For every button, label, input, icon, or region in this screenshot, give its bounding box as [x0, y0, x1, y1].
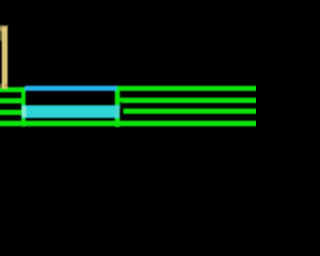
wire green line2 left segment	[0, 98, 26, 103]
wire green line1 right segment	[115, 86, 259, 91]
wire green line2 right segment	[119, 98, 259, 103]
wire green left vertical bar	[21, 87, 25, 126]
wire blue metal line1 middle segment	[25, 86, 117, 91]
poly gate P1 vertical bar	[2, 27, 8, 89]
poly gate P1 dim stub	[0, 27, 2, 32]
wire green line3 right segment	[123, 109, 259, 114]
contact overlap left (cyan over green bar)	[22, 106, 26, 117]
poly gate P1 dim left foot	[0, 84, 2, 88]
wire cyan metal thick bar	[22, 105, 120, 118]
poly gate P1 top olive edge	[0, 25, 8, 27]
wire green line4 full width	[0, 121, 259, 126]
poly gate P1 dark tail	[0, 31, 2, 41]
dark notch at bar/line2 junction	[120, 102, 122, 108]
poly gate P1 bottom salmon tinge	[5, 84, 8, 88]
wire green line3 left segment	[0, 110, 22, 115]
contact overlap right (cyan over green bar)	[115, 106, 119, 118]
wire green right vertical bar	[115, 86, 120, 127]
wire green line1 left segment	[0, 87, 26, 92]
